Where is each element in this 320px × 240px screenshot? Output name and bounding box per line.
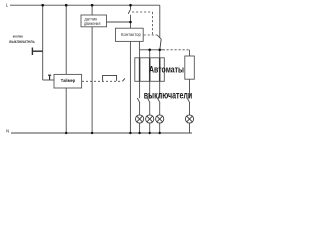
wire dashed bus drop right: [189, 50, 191, 56]
breaker pole wire 2: [149, 58, 151, 82]
wire lamp4 to N: [189, 123, 191, 133]
wire branch A horizontal into timer: [43, 79, 54, 81]
wire sensor bottom to N: [91, 27, 93, 133]
breaker group box Автоматы: [135, 58, 165, 82]
node dot L-A: [41, 4, 44, 7]
wire switch3 to lamp3: [159, 103, 161, 115]
node dot N sensor: [91, 132, 93, 134]
node dot L-B: [65, 4, 68, 7]
wire lamp2 to N: [149, 123, 151, 133]
lamp EL2: [146, 115, 154, 123]
wire bus drop 2: [149, 50, 151, 58]
wire L line: [10, 4, 160, 6]
wire contactor to N: [129, 41, 131, 133]
breaker box right: [185, 56, 195, 79]
wire sensor output horizontal: [107, 21, 131, 23]
svg-text:Таймер: Таймер: [61, 77, 75, 84]
svg-text:кнопка: кнопка: [13, 34, 24, 39]
bracket over control line: [103, 75, 117, 81]
node dot L-C: [91, 4, 94, 7]
wire switch2 to lamp2: [149, 103, 151, 115]
dashed link horizontal to right contact: [144, 34, 158, 36]
wire branch D from L to sensor contact: [130, 5, 132, 9]
wire breaker2 to switch2: [149, 81, 151, 98]
svg-text:Контактор: Контактор: [121, 32, 141, 37]
dashed link tip to lever: [157, 35, 161, 39]
node dot L-D: [129, 4, 132, 7]
svg-text:движения: движения: [84, 21, 101, 26]
switch lever 4: [187, 98, 190, 103]
breaker pole wire 3: [159, 58, 161, 82]
switch lever 1: [137, 98, 140, 103]
svg-text:Автоматы: Автоматы: [149, 64, 184, 74]
wire lamp1 to N: [139, 123, 141, 133]
dashed bus extension: [167, 49, 190, 51]
svg-text:N: N: [6, 128, 9, 133]
wire lamp3 to N: [159, 123, 161, 133]
svg-text:выключатель: выключатель: [9, 39, 35, 44]
wire breaker4 to switch4: [189, 79, 191, 98]
wire bus: [139, 49, 165, 51]
wire switch4 to lamp4: [189, 103, 191, 115]
dashed link sensor contact horizontal: [132, 11, 153, 13]
wire timer bottom to N: [65, 88, 67, 133]
node dot sensor output: [129, 21, 132, 24]
node dot N contactor: [129, 132, 131, 134]
dashed link vertical: [152, 12, 154, 35]
node dot bus 2: [148, 49, 151, 52]
svg-text:выключатели: выключатели: [144, 91, 193, 102]
dashed timer control line: [82, 80, 122, 82]
wire sensor contact to node K: [130, 15, 132, 28]
timer box U1: [54, 74, 82, 88]
wire N line: [11, 132, 192, 134]
push-button SB actuator: [32, 48, 42, 56]
node dot N timer: [65, 132, 67, 134]
wire breaker1 to switch1: [139, 81, 141, 98]
control line end tick: [122, 78, 125, 81]
wire L right branch drop: [159, 5, 161, 37]
motion sensor box B1: [81, 15, 107, 27]
wire branch C from L to sensor top: [91, 5, 93, 15]
node dot N lamp1: [138, 132, 140, 134]
switch lever 2: [147, 98, 150, 103]
wire branch A vertical from L: [42, 5, 44, 80]
node dot N lamp3: [159, 132, 161, 134]
lamp EL4: [185, 115, 193, 123]
wire bus drop 1: [139, 50, 141, 58]
switch lever 3: [157, 98, 160, 103]
lamp EL1: [136, 115, 144, 123]
wire bus drop 3: [159, 50, 161, 58]
sensor relay contact K1.1: [128, 10, 130, 14]
node dot bus 3: [158, 49, 161, 52]
right branch contact K2 lever: [160, 39, 161, 49]
wire contactor to bus: [138, 41, 140, 49]
contactor box KM: [116, 28, 144, 41]
node dot N lamp2: [149, 132, 151, 134]
breaker pole wire 1: [139, 58, 141, 82]
contact T symbol on timer input: [48, 75, 51, 80]
lamp EL3: [156, 115, 164, 123]
wire breaker3 to switch3: [159, 81, 161, 98]
wire branch B from L to timer top: [65, 5, 67, 74]
wire switch1 to lamp1: [139, 103, 141, 115]
